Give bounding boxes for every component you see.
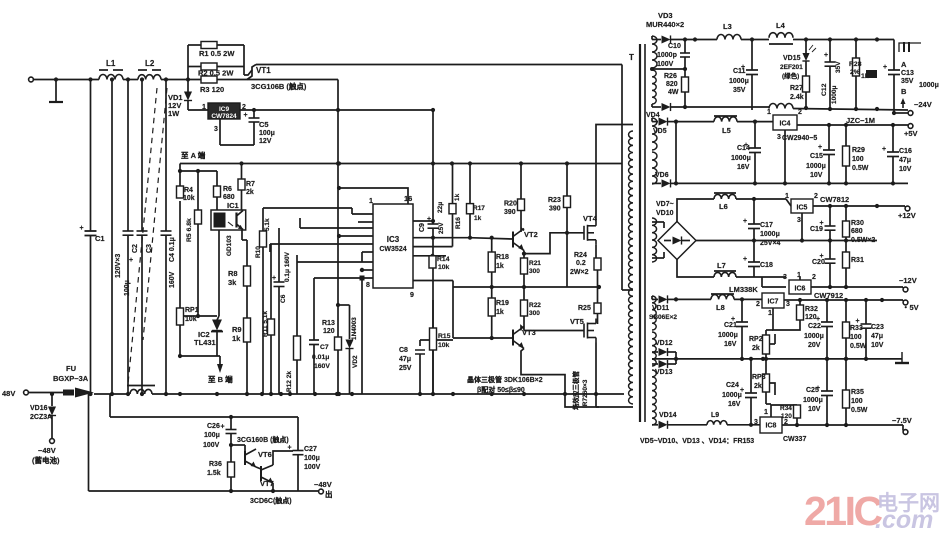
svg-text:R35: R35: [851, 389, 864, 396]
svg-text:1: 1: [768, 310, 772, 317]
svg-text:−7.5V: −7.5V: [892, 416, 912, 425]
wire: left leg of R1 R2: [188, 45, 201, 90]
capacitor C4: [161, 80, 177, 395]
wire: 5V rail: [676, 121, 714, 123]
svg-text:+: +: [272, 275, 276, 282]
svg-text:2: 2: [814, 193, 818, 200]
svg-text:C1: C1: [95, 234, 105, 243]
regulator IC4 CW2940: [767, 109, 817, 183]
inductor L9: [707, 412, 727, 425]
svg-text:VT1: VT1: [256, 66, 271, 75]
svg-text:R24: R24: [574, 252, 587, 259]
svg-text:−48V: −48V: [38, 446, 56, 455]
resistor R24: [570, 252, 601, 303]
svg-text:+: +: [743, 256, 747, 263]
svg-text:至 B 端: 至 B 端: [208, 374, 233, 384]
svg-text:BGXP−3A: BGXP−3A: [53, 374, 89, 383]
wire: [741, 37, 769, 41]
wire: A rail: [180, 161, 622, 165]
svg-text:FU: FU: [66, 364, 76, 373]
capacitor C2: [123, 80, 140, 395]
wire: emitter return: [88, 394, 90, 491]
svg-text:47μ: 47μ: [871, 333, 883, 340]
svg-text:TL431: TL431: [194, 338, 216, 347]
wire: 24V top rail: [693, 37, 717, 41]
svg-text:3k: 3k: [228, 278, 237, 287]
svg-text:R28: R28: [849, 61, 862, 68]
svg-text:VD16: VD16: [30, 405, 48, 412]
terminal +5V: [904, 124, 918, 138]
svg-text:3CG160B (触点): 3CG160B (触点): [237, 435, 289, 444]
svg-text:120: 120: [323, 328, 335, 335]
wire: 5V out rail: [797, 123, 908, 127]
svg-text:+: +: [244, 112, 248, 119]
svg-text:0.5W: 0.5W: [851, 407, 868, 414]
wire: VT2 emitter to VT4 gate: [522, 233, 584, 256]
svg-text:C19: C19: [810, 226, 823, 233]
svg-text:100V: 100V: [657, 61, 674, 68]
wire: [179, 201, 181, 308]
svg-text:C25: C25: [806, 387, 819, 394]
svg-text:C12: C12: [821, 83, 828, 96]
capacitor C21: [718, 297, 748, 359]
regulator IC6 CW7912: [783, 272, 843, 300]
svg-text:25V: 25V: [399, 365, 412, 372]
svg-text:VT2: VT2: [524, 230, 538, 239]
svg-text:R32: R32: [805, 306, 818, 313]
svg-text:0.5W: 0.5W: [852, 165, 869, 172]
wire: vertical bus 2: [110, 77, 114, 394]
svg-text:R1 0.5 2W: R1 0.5 2W: [199, 49, 235, 58]
svg-text:48V: 48V: [2, 389, 15, 398]
svg-text:+: +: [856, 318, 860, 325]
wire: to resistor bank: [161, 77, 201, 81]
terminal +12V: [898, 206, 916, 220]
svg-text:VD13: VD13: [655, 369, 673, 376]
wire: input line to L1: [56, 77, 99, 81]
svg-text:1W: 1W: [168, 109, 180, 118]
svg-text:4W: 4W: [668, 89, 679, 96]
svg-text:C17: C17: [760, 222, 773, 229]
wire: [123, 77, 138, 81]
svg-text:场效应三极管: 场效应三极管: [571, 371, 580, 411]
resistor R27: [790, 72, 810, 107]
svg-text:0.2: 0.2: [576, 260, 586, 267]
svg-text:VD6: VD6: [655, 172, 669, 179]
svg-text:IC8: IC8: [766, 423, 777, 430]
capacitor C26: [203, 415, 237, 462]
regulator IC CW7824: [188, 103, 246, 133]
svg-text:680: 680: [223, 194, 235, 201]
wire: 5V2 ground rail: [652, 357, 902, 361]
mosfet VT5: [570, 317, 633, 407]
capacitor C12: [821, 40, 842, 110]
current sense winding: [127, 386, 155, 395]
svg-text:R26: R26: [664, 73, 677, 80]
transformer secondary winding 24V lower: [652, 70, 656, 104]
svg-text:+: +: [816, 316, 820, 323]
capacitor C5: [244, 110, 275, 145]
svg-text:35V: 35V: [733, 87, 746, 94]
svg-text:160V: 160V: [169, 271, 176, 288]
resistor R35: [843, 357, 868, 425]
svg-text:−12V: −12V: [899, 276, 917, 285]
svg-text:B: B: [901, 87, 907, 96]
svg-text:C6: C6: [280, 294, 287, 303]
svg-text:10V: 10V: [899, 166, 912, 173]
svg-text:1.5k: 1.5k: [207, 470, 221, 477]
svg-text:L6: L6: [719, 202, 728, 211]
potentiometer RP2: [749, 330, 775, 359]
regulator IC5 CW7812: [785, 193, 849, 241]
svg-text:VD14: VD14: [659, 412, 677, 419]
capacitor C27: [288, 445, 321, 492]
transformer secondary winding 5V2: [652, 296, 656, 330]
label to-A: [181, 150, 206, 160]
text: diode note: [640, 438, 754, 445]
svg-text:R15: R15: [438, 333, 451, 340]
svg-text:VT3: VT3: [522, 328, 536, 337]
svg-text:VT6: VT6: [258, 450, 272, 459]
svg-text:(绿色): (绿色): [782, 71, 799, 80]
resistor R26: [664, 69, 689, 109]
svg-text:VD5~VD10、VD13 、VD14：FR153: VD5~VD10、VD13 、VD14：FR153: [640, 438, 754, 445]
svg-text:VT7: VT7: [260, 479, 274, 488]
svg-text:R4: R4: [184, 187, 193, 194]
wire: C26 branch: [110, 394, 298, 450]
svg-text:R12 2k: R12 2k: [286, 371, 293, 392]
wire: [178, 164, 217, 187]
text 3CG160B: [237, 435, 289, 444]
svg-text:R11 5.1k: R11 5.1k: [262, 311, 269, 337]
resistor R31: [843, 241, 864, 288]
diode VD3b: [652, 103, 704, 111]
svg-text:100V: 100V: [203, 442, 220, 449]
svg-text:10k: 10k: [438, 342, 450, 349]
wire: [734, 298, 762, 300]
svg-text:16V: 16V: [728, 401, 741, 408]
wire: B rail: [180, 356, 233, 384]
svg-text:+12V: +12V: [898, 211, 916, 220]
resistor R7: [238, 161, 255, 210]
svg-text:1N4003: 1N4003: [351, 317, 358, 340]
resistor R3: [200, 76, 224, 94]
bridge rectifier VD7-VD10: [656, 201, 696, 260]
wire: -12V rail: [762, 277, 903, 289]
resistor R21: [521, 254, 542, 290]
capacitor C24: [722, 357, 757, 427]
resistor R16: [449, 164, 462, 247]
svg-text:+: +: [743, 218, 747, 225]
transformer secondary winding 5V: [652, 118, 657, 150]
wire: [727, 424, 760, 426]
svg-text:+: +: [221, 424, 225, 431]
svg-text:C4 0.1μ: C4 0.1μ: [169, 237, 176, 262]
resistor R28: [849, 40, 877, 110]
svg-text:1k: 1k: [496, 263, 504, 270]
svg-text:L2: L2: [145, 59, 155, 68]
svg-text:820: 820: [666, 81, 678, 88]
svg-text:R2 0.5 2W: R2 0.5 2W: [198, 69, 234, 78]
capacitor C15: [806, 125, 835, 183]
svg-text:2k: 2k: [752, 345, 760, 352]
svg-text:C23: C23: [871, 324, 884, 331]
svg-text:100μ: 100μ: [204, 432, 220, 439]
resistor R8: [228, 230, 251, 318]
resistor R29: [843, 125, 869, 183]
capacitor C7: [309, 278, 335, 394]
svg-text:+5V: +5V: [904, 129, 918, 138]
transformer secondary winding 24V: [652, 36, 657, 68]
svg-text:IC3: IC3: [387, 235, 400, 244]
transistor VT6: [231, 445, 272, 467]
terminal 5V2: [902, 300, 919, 312]
svg-text:T: T: [629, 53, 634, 62]
svg-text:1k: 1k: [474, 215, 482, 222]
svg-text:VD5: VD5: [653, 128, 667, 135]
wire: 24V rail to C13: [793, 37, 894, 41]
svg-text:1000μ: 1000μ: [804, 333, 824, 340]
svg-text:RP1: RP1: [185, 307, 199, 314]
svg-text:R8: R8: [228, 269, 238, 278]
svg-text:CW7824: CW7824: [211, 113, 237, 120]
svg-text:3: 3: [214, 126, 218, 133]
svg-text:8: 8: [366, 282, 370, 289]
optocoupler IC1 GD103: [211, 201, 246, 256]
svg-text:β配对 50≤β≤90: β配对 50≤β≤90: [477, 385, 525, 394]
transformer secondary winding 5V lower: [652, 152, 657, 184]
svg-text:C11: C11: [733, 68, 746, 75]
wire: VT3 emitter loop: [521, 349, 599, 408]
svg-text:10V: 10V: [810, 172, 823, 179]
svg-text:R16: R16: [455, 217, 462, 229]
svg-text:120V×3: 120V×3: [115, 254, 122, 278]
svg-text:47μ: 47μ: [399, 356, 411, 363]
zener VD1: [168, 90, 192, 118]
capacitor C20: [812, 241, 836, 288]
terminal -24V: [892, 98, 932, 115]
wire: IC3 left pin nets: [270, 208, 373, 394]
svg-text:L3: L3: [723, 22, 732, 31]
terminal -7.5V: [892, 416, 912, 434]
svg-text:VT5: VT5: [570, 317, 584, 326]
svg-text:100μ: 100μ: [304, 455, 320, 462]
svg-text:R20: R20: [504, 201, 517, 208]
svg-text:+: +: [288, 445, 292, 452]
regulator IC8 CW337: [754, 409, 806, 443]
svg-text:L4: L4: [776, 21, 786, 30]
wire: VT3 collector to VT5 gate: [524, 330, 584, 332]
resistor R22: [521, 287, 542, 331]
svg-text:SB06E×2: SB06E×2: [649, 314, 677, 321]
resistor R14: [429, 256, 450, 271]
svg-text:100: 100: [852, 156, 864, 163]
diode VD11: [649, 295, 678, 321]
wire: [736, 197, 786, 201]
svg-text:CW7812: CW7812: [820, 195, 849, 204]
transistor VT1: [244, 65, 307, 92]
svg-text:3: 3: [786, 301, 790, 308]
svg-text:10V: 10V: [808, 406, 821, 413]
resistor R9: [232, 318, 251, 394]
svg-text:21IC: 21IC: [804, 488, 882, 534]
svg-text:C10: C10: [668, 43, 681, 50]
svg-text:GD103: GD103: [226, 235, 233, 256]
svg-text:L8: L8: [716, 303, 725, 312]
resistor R1: [199, 42, 235, 59]
svg-text:2EF201: 2EF201: [780, 64, 803, 71]
terminal 48V input: [2, 389, 63, 398]
svg-text:1k: 1k: [454, 193, 461, 201]
shunt reg IC2 TL431: [194, 320, 223, 357]
wire: right leg of R1 R2: [217, 45, 244, 75]
svg-text:0.1μ 160V: 0.1μ 160V: [284, 251, 291, 282]
svg-text:35V: 35V: [901, 78, 914, 85]
svg-text:−48V: −48V: [314, 480, 332, 489]
svg-text:VD11: VD11: [652, 305, 669, 312]
text 3CD6C: [250, 496, 292, 505]
svg-text:2.4k: 2.4k: [790, 94, 804, 101]
resistor R6: [214, 171, 235, 210]
svg-text:2CZ3A: 2CZ3A: [30, 414, 52, 421]
LED VD15: [780, 40, 816, 81]
svg-text:1000μ: 1000μ: [760, 231, 780, 238]
capacitor C8: [399, 340, 453, 394]
svg-text:至 A 端: 至 A 端: [181, 150, 206, 160]
svg-text:VD4: VD4: [646, 112, 660, 119]
shield dashed line 2: [143, 88, 167, 340]
svg-text:C20: C20: [812, 259, 825, 266]
svg-text:R5 6.8k: R5 6.8k: [186, 218, 193, 242]
terminal -12V: [899, 276, 917, 292]
svg-text:R19: R19: [496, 300, 509, 307]
diode VD16: [30, 394, 56, 438]
svg-text:2: 2: [756, 301, 760, 308]
capacitor C19: [810, 206, 836, 241]
svg-text:C22: C22: [808, 323, 821, 330]
svg-text:R13: R13: [322, 320, 335, 327]
svg-text:3: 3: [754, 419, 758, 426]
svg-text:IC5: IC5: [797, 205, 808, 212]
terminal -48V out: [89, 480, 333, 499]
wire: vertical bus from input: [90, 80, 92, 232]
svg-text:C26: C26: [207, 423, 220, 430]
wire: CW7824 pin3 ground: [220, 119, 254, 145]
text LM338K: [729, 285, 758, 294]
svg-text:R7: R7: [246, 181, 255, 188]
wire: vertical bus x338: [336, 80, 340, 395]
svg-text:R17: R17: [473, 205, 485, 212]
svg-text:1: 1: [767, 109, 771, 116]
svg-text:160V: 160V: [314, 363, 330, 370]
mosfet VT4: [583, 125, 633, 259]
svg-text:C14: C14: [737, 145, 750, 152]
svg-text:+: +: [129, 257, 133, 264]
wire: 5V ground rail: [676, 181, 908, 185]
svg-text:C15: C15: [810, 153, 823, 160]
wire: VT1 collector top rail: [256, 64, 622, 66]
svg-text:IC4: IC4: [780, 121, 791, 128]
svg-text:R23: R23: [548, 197, 561, 204]
svg-text:3: 3: [777, 134, 781, 141]
wire: [737, 120, 773, 124]
inductor L4: [769, 21, 793, 44]
resistor R25: [578, 303, 601, 324]
resistor R11: [262, 244, 275, 394]
svg-text:1000μ: 1000μ: [722, 392, 742, 399]
svg-text:390: 390: [504, 209, 516, 216]
capacitor C13: [883, 40, 939, 114]
transformer T primary winding: [629, 53, 634, 404]
text: mosfet note: [571, 371, 589, 411]
svg-text:300: 300: [529, 310, 540, 317]
svg-text:0.5W: 0.5W: [850, 343, 867, 350]
capacitor C22: [804, 300, 833, 359]
capacitor C16: [882, 125, 912, 183]
diode VD4 VD5: [646, 112, 678, 135]
svg-text:C9: C9: [419, 223, 426, 232]
inductor L4b coupled: [769, 104, 793, 109]
wire: top rail drop to transformer centre tap: [622, 65, 633, 291]
svg-text:680: 680: [851, 228, 863, 235]
transistor VT7: [256, 451, 293, 493]
wire: opto LED cathode: [217, 230, 219, 320]
svg-text:25V: 25V: [438, 222, 445, 234]
svg-text:R22: R22: [529, 302, 541, 309]
svg-text:1000μ: 1000μ: [831, 86, 838, 104]
svg-text:100: 100: [850, 334, 862, 341]
diode VD14: [652, 412, 707, 429]
svg-text:LM338K: LM338K: [729, 285, 758, 294]
svg-text:1: 1: [369, 198, 373, 205]
svg-text:C7: C7: [320, 344, 329, 351]
transformer secondary winding 12V: [652, 218, 657, 262]
svg-text:C13: C13: [901, 70, 914, 77]
svg-text:R10: R10: [255, 246, 262, 258]
resistor R19: [488, 287, 509, 338]
svg-text:C5: C5: [259, 120, 269, 129]
svg-text:2: 2: [798, 109, 802, 116]
potentiometer RP3: [752, 357, 775, 404]
wire: vertical bus x433: [431, 108, 435, 164]
wire: -7.5V rail: [782, 423, 903, 427]
svg-text:L9: L9: [711, 412, 719, 419]
svg-text:.com: .com: [875, 506, 933, 534]
resistor R20: [504, 164, 525, 233]
svg-text:+: +: [824, 52, 828, 59]
transistor VT2: [470, 228, 538, 251]
wire: 24V winding centre tap: [650, 67, 685, 71]
capacitor C17: [743, 199, 781, 247]
resistor R10: [255, 208, 352, 394]
svg-text:100: 100: [851, 398, 863, 405]
svg-text:C16: C16: [899, 148, 912, 155]
wire: VT1 emitter to A rail: [247, 79, 338, 81]
svg-text:10k: 10k: [438, 264, 450, 271]
wire: bridge top out: [677, 199, 714, 222]
wire: 12V mid rail: [696, 238, 877, 242]
svg-text:R6: R6: [223, 186, 232, 193]
svg-text:1: 1: [764, 409, 768, 416]
svg-text:R9: R9: [232, 325, 242, 334]
inductor L8: [676, 294, 734, 312]
svg-text:C8: C8: [399, 347, 408, 354]
svg-text:VD10: VD10: [656, 210, 674, 217]
svg-text:2k: 2k: [754, 383, 762, 390]
svg-text:R18: R18: [496, 254, 509, 261]
svg-text:C21: C21: [724, 322, 737, 329]
resistor R2: [198, 63, 234, 78]
